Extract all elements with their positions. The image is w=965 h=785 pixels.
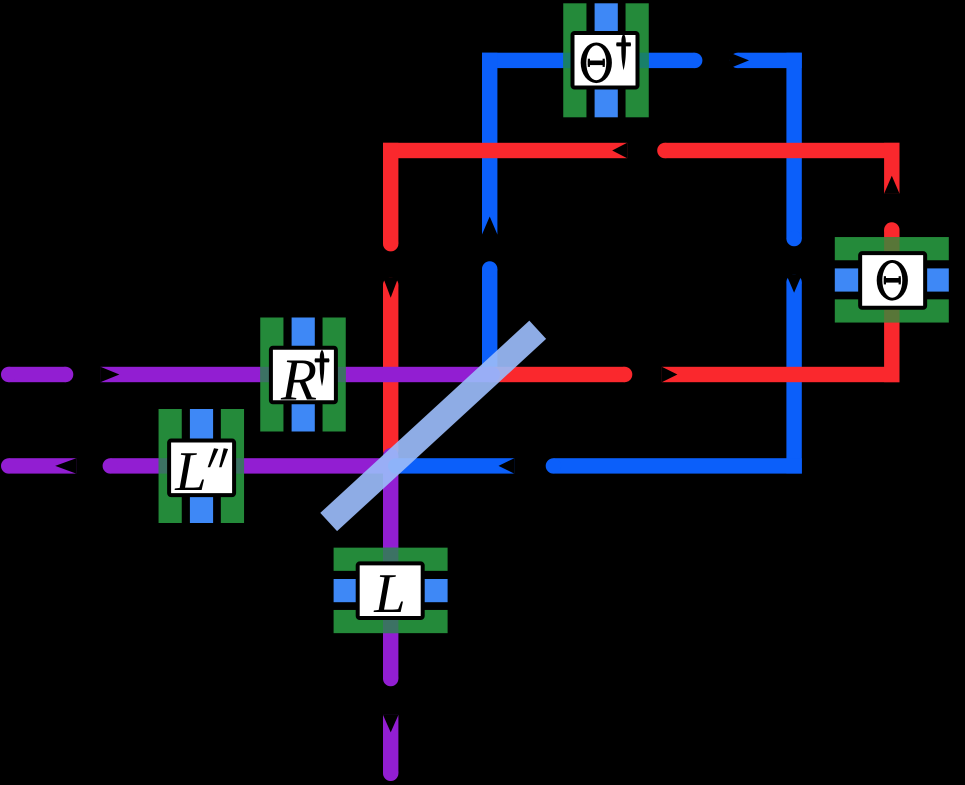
gate Theta-dagger green bar right: [626, 3, 649, 117]
gate L-double-prime green bar left: [159, 409, 182, 523]
gate L-double-prime wire blend on right bar: [221, 458, 244, 473]
operator box R-dagger: [271, 348, 336, 403]
arrowhead left on purple row2 wire: [55, 458, 76, 473]
arrowhead down on red left wire: [383, 277, 398, 298]
wire red loop bottom-right segment: [662, 367, 900, 382]
gate Theta blue bar middle: [835, 268, 949, 291]
wire blue bottom-left segment into beamsplitter: [396, 458, 515, 473]
gate Theta green bar bottom: [835, 299, 949, 322]
svg-text:R: R: [280, 346, 317, 412]
svg-text:L: L: [174, 441, 206, 503]
wire purple bottom vertical lower segment: [383, 715, 398, 773]
arrowhead down on blue right wire: [786, 275, 801, 293]
gate L green bar bottom: [334, 610, 448, 633]
wire blue loop top-right segment: [738, 53, 802, 68]
arrowhead right on blue top wire: [730, 53, 749, 68]
wire red loop left vertical upper segment: [383, 143, 398, 244]
arrowhead up on blue left wire: [482, 217, 497, 235]
wire red loop right vertical lower segment: [884, 230, 899, 382]
wire purple input dash row1: [9, 367, 66, 382]
arrowhead right on purple row1 wire: [100, 367, 119, 382]
gate R-dagger green bar left: [260, 318, 283, 432]
gate Theta wire blend on top bar: [884, 237, 899, 260]
wire purple row2 main segment: [110, 458, 390, 473]
wire blue loop right vertical upper segment: [786, 53, 801, 239]
wire red loop right vertical upper segment: [884, 143, 899, 194]
gate R-dagger wire blend on left bar: [260, 367, 283, 382]
operator box Theta: [860, 253, 925, 308]
operator box L-double-prime: [169, 441, 234, 496]
gate Theta-dagger green bar left: [563, 3, 586, 117]
wire purple bottom vertical upper segment: [383, 456, 398, 679]
wire red loop left vertical lower segment: [383, 285, 398, 451]
gate L blue bar middle: [334, 579, 448, 602]
gate R-dagger wire blend on right bar: [323, 367, 346, 382]
wire blue loop left vertical lower segment: [482, 269, 497, 374]
wire red loop bottom-left segment: [490, 367, 625, 382]
gate L-double-prime green bar right: [221, 409, 244, 523]
gate Theta-dagger wire blend on right bar: [626, 53, 649, 68]
gate Theta-dagger wire blend on left bar: [563, 53, 586, 68]
wire blue loop left vertical upper segment: [482, 53, 497, 235]
wire blue loop top-left segment: [482, 53, 695, 68]
wire red loop top-left segment: [383, 143, 627, 158]
arrowhead down on purple bottom wire: [383, 715, 398, 733]
wire blue loop right vertical lower segment: [786, 282, 801, 473]
wire purple row1 main segment: [100, 367, 492, 382]
gate L wire blend on bottom bar: [383, 610, 398, 633]
operator box L: [358, 563, 423, 618]
gate R-dagger green bar right: [323, 318, 346, 432]
arrowhead up on red right wire: [884, 176, 899, 194]
arrowhead right on red bottom wire: [662, 367, 678, 382]
wire purple output dash row2: [9, 458, 77, 473]
gate R-dagger blue bar middle: [292, 318, 315, 432]
label Theta-dagger: [581, 43, 612, 84]
gate L green bar top: [334, 548, 448, 571]
wire red loop top-right segment: [665, 143, 900, 158]
gate Theta wire blend on bottom bar: [884, 299, 899, 322]
operator box Theta-dagger: [573, 33, 638, 88]
gate L-double-prime blue bar middle: [190, 409, 213, 523]
arrowhead left on blue bottom wire: [499, 458, 515, 473]
gate L-double-prime wire blend on left bar: [159, 458, 182, 473]
svg-text:L: L: [373, 563, 405, 625]
gate L wire blend on top bar: [383, 548, 398, 571]
label Theta: [877, 260, 908, 301]
gate Theta-dagger blue bar middle: [595, 3, 618, 117]
wire blue loop bottom segment: [553, 458, 801, 473]
arrowhead left on red top wire: [612, 143, 627, 158]
gate Theta green bar top: [835, 237, 949, 260]
beam splitter diagonal bar: [320, 321, 546, 531]
